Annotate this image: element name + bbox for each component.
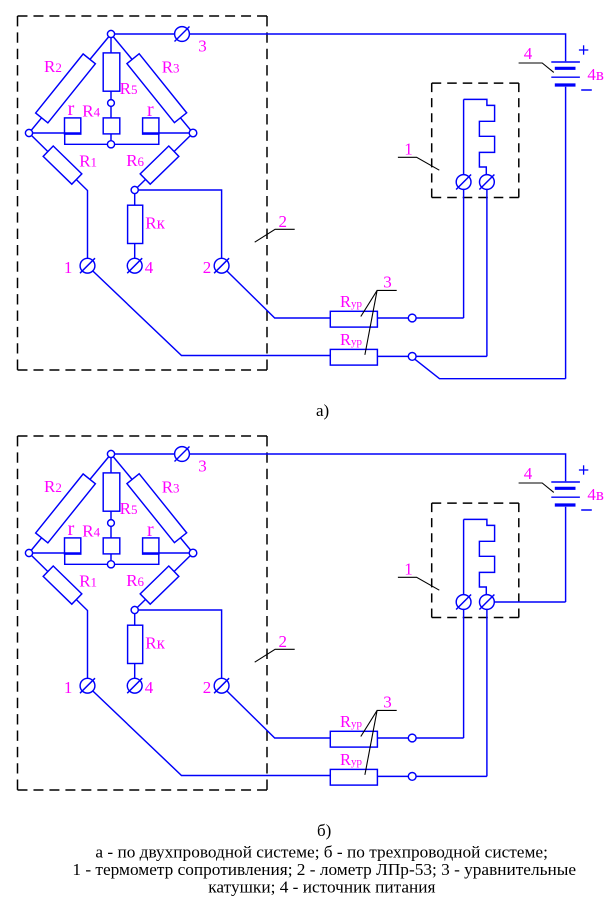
svg-text:б): б): [317, 821, 331, 840]
svg-text:а): а): [316, 401, 329, 420]
svg-text:1 - термометр сопротивления; 2: 1 - термометр сопротивления; 2 - лометр …: [72, 860, 576, 879]
svg-text:а - по двухпроводной системе;: а - по двухпроводной системе; б - по тре…: [95, 843, 547, 862]
svg-text:катушки; 4 - источник питания: катушки; 4 - источник питания: [208, 878, 435, 897]
